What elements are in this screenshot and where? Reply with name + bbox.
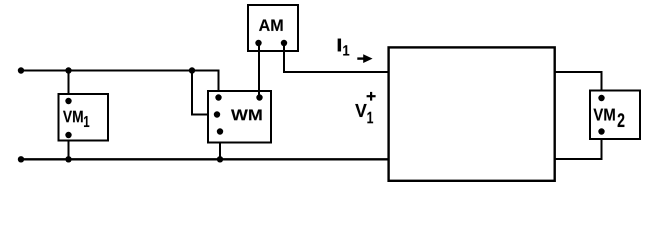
wire VM1 bottom lead <box>68 135 70 159</box>
label V1 <box>355 104 373 123</box>
label plus polarity of V1 <box>367 92 376 101</box>
ammeter AM box <box>248 5 298 51</box>
wattmeter WM box <box>208 91 271 143</box>
arrow I1 direction <box>357 54 372 63</box>
node junction bottom bus to WM <box>217 156 223 162</box>
AM left terminal <box>255 40 261 46</box>
AM right terminal <box>281 40 287 46</box>
label VM2 <box>593 109 624 127</box>
label I1 <box>338 39 350 56</box>
WM left-middle terminal <box>214 111 220 117</box>
node top-left source terminal <box>18 67 24 73</box>
VM1 top terminal <box>65 98 71 104</box>
voltmeter VM1 box <box>59 94 109 141</box>
node junction top bus to VM1 <box>65 67 71 73</box>
WM bottom terminal <box>217 128 223 134</box>
VM1 bottom terminal <box>65 132 71 138</box>
wire VM1 top lead <box>68 71 70 102</box>
wire VM2 top lead <box>555 72 602 98</box>
VM2 bottom terminal <box>598 128 604 134</box>
node bottom-left source terminal <box>18 156 24 162</box>
box network under test <box>389 47 555 180</box>
WM top-left terminal <box>215 94 221 100</box>
node junction bottom bus to VM1 <box>65 156 71 162</box>
label VM1 <box>63 111 89 127</box>
node junction top bus to WM voltage tap <box>189 67 195 73</box>
voltmeter VM2 box <box>590 91 640 140</box>
VM2 top terminal <box>598 95 604 101</box>
wire WM voltage-coil tap <box>192 71 216 115</box>
label WM <box>231 109 262 120</box>
wire AM left lead down to WM <box>258 43 260 98</box>
wire VM2 bottom lead <box>555 132 602 160</box>
wire AM right lead to network input <box>284 43 389 72</box>
wire bottom bus <box>21 158 389 160</box>
WM top-right terminal <box>256 94 262 100</box>
wire top bus <box>21 71 219 97</box>
wire WM bottom lead <box>219 132 221 160</box>
label AM <box>259 19 283 30</box>
